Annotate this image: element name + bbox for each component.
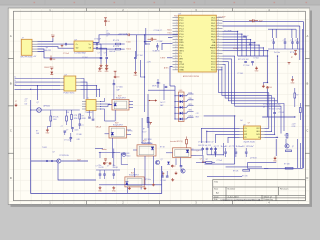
svg-text:WR: WR bbox=[179, 59, 183, 61]
svg-text:A: A bbox=[10, 34, 12, 38]
svg-text:Sheet of: Sheet of bbox=[264, 195, 273, 198]
svg-text:PuL Ser: PuL Ser bbox=[274, 51, 280, 54]
svg-text:27: 27 bbox=[218, 52, 220, 54]
svg-text:R?: R? bbox=[82, 115, 84, 117]
svg-text:29: 29 bbox=[218, 47, 220, 49]
svg-text:R?: R? bbox=[36, 130, 38, 132]
svg-text:Number: Number bbox=[228, 188, 236, 191]
svg-text:Rel?: Rel? bbox=[118, 95, 122, 97]
svg-text:C? 22uF: C? 22uF bbox=[243, 65, 249, 67]
svg-text:Q?: Q? bbox=[292, 146, 294, 148]
svg-text:VAC-A: VAC-A bbox=[96, 126, 102, 129]
svg-text:R? 470: R? 470 bbox=[242, 176, 248, 178]
svg-text:PC817 817C: PC817 817C bbox=[64, 92, 75, 94]
svg-text:18: 18 bbox=[175, 63, 177, 65]
svg-text:C? 104: C? 104 bbox=[137, 55, 143, 57]
svg-text:R?: R? bbox=[206, 159, 208, 161]
svg-text:S RST: S RST bbox=[160, 58, 166, 60]
svg-text:VCC: VCC bbox=[211, 17, 216, 19]
svg-text:1R-2W: 1R-2W bbox=[99, 167, 104, 169]
svg-text:VCC?: VCC? bbox=[142, 131, 146, 133]
svg-text:104: 104 bbox=[107, 21, 110, 23]
svg-text:22: 22 bbox=[218, 66, 220, 68]
svg-text:R? 10K: R? 10K bbox=[53, 116, 60, 118]
svg-text:C? 104: C? 104 bbox=[161, 180, 166, 182]
svg-text:B: B bbox=[307, 81, 309, 85]
svg-text:C?: C? bbox=[106, 36, 108, 38]
svg-text:Rel?: Rel? bbox=[131, 173, 135, 175]
svg-text:D: D bbox=[306, 176, 308, 180]
svg-text:Q? 9013: Q? 9013 bbox=[250, 158, 257, 160]
svg-text:Rel?: Rel? bbox=[115, 122, 119, 124]
svg-text:C:\Documents and Settings\Desk: C:\Documents and Settings\Desktop\MCU.dd… bbox=[221, 198, 262, 201]
svg-text:C?: C? bbox=[290, 40, 292, 42]
svg-text:23: 23 bbox=[218, 63, 220, 65]
svg-text:1uF: 1uF bbox=[240, 120, 243, 122]
svg-text:1uF C?: 1uF C? bbox=[160, 102, 165, 104]
svg-text:C?: C? bbox=[174, 166, 176, 168]
svg-text:C?: C? bbox=[200, 158, 202, 160]
svg-text:C?: C? bbox=[107, 165, 109, 167]
svg-text:Q?: Q? bbox=[52, 152, 54, 154]
svg-text:34: 34 bbox=[218, 33, 220, 35]
svg-text:TL431: TL431 bbox=[42, 147, 47, 149]
svg-text:100 104: 100 104 bbox=[109, 51, 115, 53]
svg-text:Y? 12MHz: Y? 12MHz bbox=[224, 30, 232, 32]
svg-text:C? 1000: C? 1000 bbox=[116, 87, 122, 89]
svg-text:C? 104 C?: C? 104 C? bbox=[154, 30, 163, 32]
svg-text:38: 38 bbox=[218, 22, 220, 24]
svg-text:INT0: INT0 bbox=[189, 104, 193, 106]
svg-text:28: 28 bbox=[218, 49, 220, 51]
svg-text:AT89C52RC/DIP40: AT89C52RC/DIP40 bbox=[183, 75, 200, 78]
svg-text:C?: C? bbox=[98, 53, 100, 55]
svg-text:Drawn by: Drawn by bbox=[264, 198, 274, 201]
svg-text:C?: C? bbox=[197, 150, 199, 152]
svg-text:R?: R? bbox=[296, 94, 298, 96]
svg-text:35: 35 bbox=[218, 30, 220, 32]
svg-text:R? 680: R? 680 bbox=[77, 134, 82, 136]
svg-text:C? 104 C16 104 C17: C? 104 C16 104 C17 bbox=[198, 142, 214, 144]
svg-text:Q?: Q? bbox=[37, 102, 39, 104]
svg-text:barcode-SPDT(J): barcode-SPDT(J) bbox=[170, 141, 183, 143]
svg-text:C? 104: C? 104 bbox=[263, 104, 268, 106]
svg-text:17: 17 bbox=[175, 60, 177, 62]
svg-text:C? CAP: C? CAP bbox=[157, 40, 164, 43]
svg-text:100n: 100n bbox=[75, 129, 79, 131]
svg-text:TXD1: TXD1 bbox=[167, 32, 171, 34]
svg-text:RelayS-SPDT: RelayS-SPDT bbox=[129, 175, 139, 177]
svg-text:Hailer: Hailer bbox=[126, 156, 131, 158]
svg-text:INT1: INT1 bbox=[189, 110, 193, 112]
svg-text:RD: RD bbox=[179, 61, 182, 63]
svg-text:32: 32 bbox=[218, 38, 220, 40]
svg-text:104: 104 bbox=[269, 87, 272, 89]
svg-text:100: 100 bbox=[25, 104, 28, 106]
svg-text:IN4007: IN4007 bbox=[44, 67, 50, 69]
svg-text:RxD0: RxD0 bbox=[126, 49, 130, 51]
svg-text:C: C bbox=[10, 129, 12, 133]
svg-text:U?: U? bbox=[65, 74, 67, 76]
svg-text:C?/10uF: C?/10uF bbox=[94, 39, 102, 41]
svg-text:C? 104: C? 104 bbox=[279, 112, 284, 114]
svg-text:LED4: LED4 bbox=[189, 116, 193, 118]
svg-text:C?: C? bbox=[295, 40, 297, 42]
svg-text:104 C18 1uF C19: 104 C18 1uF C19 bbox=[198, 145, 211, 147]
svg-text:C? 30pF: C? 30pF bbox=[219, 16, 225, 18]
svg-text:TXD: TXD bbox=[179, 45, 184, 47]
svg-text:C+: C+ bbox=[76, 44, 78, 46]
svg-text:RST: RST bbox=[174, 16, 177, 18]
svg-text:XTL1: XTL1 bbox=[179, 67, 185, 69]
svg-text:1206: 1206 bbox=[53, 119, 57, 121]
svg-text:VR? 3296: VR? 3296 bbox=[144, 139, 152, 141]
svg-text:3W F CX: 3W F CX bbox=[152, 85, 160, 87]
svg-text:C? 10uF: C? 10uF bbox=[63, 53, 69, 55]
svg-text:WKJ PFJ/C86: WKJ PFJ/C86 bbox=[21, 57, 33, 59]
svg-text:37: 37 bbox=[218, 25, 220, 27]
svg-text:D+: D+ bbox=[14, 77, 16, 79]
svg-text:AP9435: AP9435 bbox=[44, 104, 50, 107]
svg-text:B: B bbox=[10, 81, 12, 85]
svg-text:C?: C? bbox=[66, 129, 68, 131]
svg-text:C? 0.1uF: C? 0.1uF bbox=[64, 139, 71, 141]
svg-text:20: 20 bbox=[175, 69, 177, 71]
svg-text:13: 13 bbox=[175, 49, 177, 51]
svg-text:GND: GND bbox=[179, 70, 184, 72]
svg-text:16: 16 bbox=[175, 58, 177, 60]
svg-text:R?: R? bbox=[291, 57, 293, 59]
svg-text:11: 11 bbox=[175, 44, 177, 46]
svg-text:19: 19 bbox=[175, 66, 177, 68]
svg-text:R? SPR-CA: R? SPR-CA bbox=[60, 154, 70, 157]
svg-text:4-Jun-2010: 4-Jun-2010 bbox=[228, 196, 240, 198]
svg-text:C?: C? bbox=[263, 107, 265, 109]
svg-text:U?: U? bbox=[248, 123, 250, 125]
svg-text:TRANS2: TRANS2 bbox=[85, 111, 92, 114]
svg-text:C?: C? bbox=[246, 35, 248, 37]
svg-text:26: 26 bbox=[218, 55, 220, 57]
svg-text:12: 12 bbox=[175, 47, 177, 49]
svg-text:V+: V+ bbox=[89, 44, 91, 46]
svg-text:ICL7660 MAX: ICL7660 MAX bbox=[74, 51, 87, 54]
svg-text:RelayS-SPDT: RelayS-SPDT bbox=[116, 97, 126, 99]
svg-text:A: A bbox=[307, 34, 309, 38]
svg-text:R?: R? bbox=[192, 149, 194, 151]
svg-text:RXD: RXD bbox=[179, 42, 184, 44]
svg-text:R?: R? bbox=[143, 129, 145, 131]
svg-text:36: 36 bbox=[218, 27, 220, 29]
svg-text:RelayS-SPDT: RelayS-SPDT bbox=[113, 124, 123, 126]
svg-text:USB-232: USB-232 bbox=[44, 50, 51, 52]
svg-text:R? 10K: R? 10K bbox=[233, 171, 239, 173]
svg-text:XQ2W 25045: XQ2W 25045 bbox=[244, 142, 255, 144]
svg-text:C? 104: C? 104 bbox=[253, 58, 258, 60]
svg-text:100: 100 bbox=[117, 77, 120, 79]
svg-text:C?: C? bbox=[104, 53, 106, 55]
svg-text:14: 14 bbox=[175, 52, 177, 54]
svg-text:PSEN: PSEN bbox=[210, 48, 216, 50]
svg-text:30pF: 30pF bbox=[259, 21, 263, 23]
svg-text:C: C bbox=[306, 129, 308, 133]
svg-text:C? 1uF C? 10uF 25V: C? 1uF C? 10uF 25V bbox=[214, 146, 256, 148]
svg-text:R? 10K: R? 10K bbox=[284, 163, 291, 165]
svg-text:A WC: A WC bbox=[164, 67, 169, 70]
svg-text:10: 10 bbox=[175, 41, 177, 43]
svg-text:31: 31 bbox=[218, 41, 220, 43]
svg-text:R? 4.7K: R? 4.7K bbox=[113, 40, 120, 42]
svg-text:R5x: R5x bbox=[99, 165, 102, 167]
svg-text:Rel?: Rel? bbox=[77, 159, 81, 161]
svg-text:C?: C? bbox=[25, 101, 27, 103]
svg-text:WDI: WDI bbox=[196, 116, 200, 118]
svg-text:30: 30 bbox=[218, 44, 220, 46]
svg-text:Q?: Q? bbox=[161, 159, 163, 161]
svg-text:C?: C? bbox=[283, 40, 285, 42]
svg-text:D: D bbox=[10, 176, 12, 180]
svg-text:TxD0: TxD0 bbox=[126, 42, 130, 44]
svg-text:ALE: ALE bbox=[212, 44, 217, 47]
svg-text:3296: 3296 bbox=[74, 118, 78, 120]
svg-text:15: 15 bbox=[175, 55, 177, 57]
svg-text:Revision: Revision bbox=[280, 189, 289, 191]
svg-text:VCNE 96: VCNE 96 bbox=[153, 50, 160, 52]
svg-text:24: 24 bbox=[218, 60, 220, 62]
svg-text:U?: U? bbox=[243, 124, 245, 126]
svg-text:C?: C? bbox=[82, 125, 84, 127]
svg-text:RXD1: RXD1 bbox=[167, 30, 171, 32]
svg-text:RST: RST bbox=[179, 39, 184, 41]
svg-text:C? 1uF: C? 1uF bbox=[217, 160, 223, 162]
svg-text:C?: C? bbox=[252, 43, 254, 45]
svg-text:C5x: C5x bbox=[113, 165, 116, 167]
svg-text:104: 104 bbox=[53, 59, 56, 61]
svg-text:33: 33 bbox=[218, 36, 220, 38]
svg-text:R? Rela: R? Rela bbox=[145, 179, 151, 181]
svg-text:XTL2: XTL2 bbox=[179, 64, 185, 66]
svg-text:C? 104: C? 104 bbox=[237, 73, 243, 75]
svg-text:25: 25 bbox=[218, 58, 220, 60]
svg-text:39: 39 bbox=[218, 19, 220, 21]
svg-text:C?: C? bbox=[272, 40, 274, 42]
svg-text:R? 4.7K: R? 4.7K bbox=[113, 46, 120, 48]
svg-text:C?: C? bbox=[15, 101, 17, 103]
svg-text:Date: Date bbox=[214, 195, 219, 198]
svg-text:C?: C? bbox=[96, 165, 98, 167]
svg-text:RP? 4.7K 102: RP? 4.7K 102 bbox=[238, 59, 249, 61]
svg-text:C?: C? bbox=[61, 126, 63, 128]
svg-text:WP: WP bbox=[244, 134, 247, 136]
svg-text:C? 104: C? 104 bbox=[82, 57, 88, 59]
